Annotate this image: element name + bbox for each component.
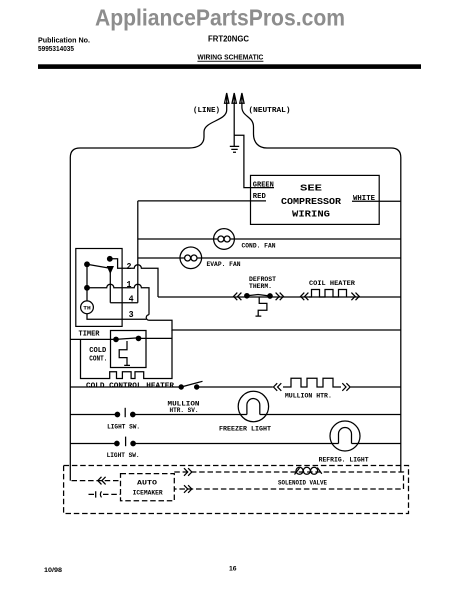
svg-text:TIMER: TIMER [79,331,101,339]
svg-text:ICEMAKER: ICEMAKER [133,489,164,497]
svg-text:LIGHT SW.: LIGHT SW. [107,452,140,460]
svg-text:SEE: SEE [300,183,322,194]
svg-text:16: 16 [229,566,237,573]
svg-text:1: 1 [127,279,132,290]
svg-text:REFRIG. LIGHT: REFRIG. LIGHT [319,457,369,465]
svg-text:COMPRESSOR: COMPRESSOR [281,196,341,207]
svg-text:4: 4 [129,293,134,304]
svg-text:FREEZER LIGHT: FREEZER LIGHT [219,426,271,434]
svg-text:WIRING: WIRING [292,209,330,220]
svg-text:WIRING SCHEMATIC: WIRING SCHEMATIC [197,53,264,62]
svg-text:LIGHT SW.: LIGHT SW. [107,423,140,431]
svg-text:MULLION HTR.: MULLION HTR. [285,392,332,400]
svg-text:Publication No.: Publication No. [38,38,90,45]
svg-text:SOLENOID VALVE: SOLENOID VALVE [278,479,327,487]
svg-text:COLD: COLD [89,347,106,355]
svg-text:10/98: 10/98 [44,567,62,574]
svg-text:FRT20NGC: FRT20NGC [208,35,249,44]
svg-text:RED: RED [253,193,266,201]
svg-text:GREEN: GREEN [253,181,274,189]
svg-text:COND. FAN: COND. FAN [242,243,276,251]
svg-text:TH: TH [83,305,91,312]
svg-text:AppliancePartsPros.com: AppliancePartsPros.com [95,5,345,31]
svg-text:3: 3 [129,309,134,320]
svg-text:5995314035: 5995314035 [38,46,74,53]
svg-text:2: 2 [127,261,132,272]
svg-text:EVAP. FAN: EVAP. FAN [207,261,241,269]
svg-text:COIL HEATER: COIL HEATER [309,280,356,288]
svg-text:THERM.: THERM. [249,283,272,291]
svg-text:(LINE): (LINE) [193,107,220,115]
svg-text:COLD CONTROL HEATER: COLD CONTROL HEATER [86,382,175,390]
svg-text:(NEUTRAL): (NEUTRAL) [249,107,291,115]
svg-text:CONT.: CONT. [89,355,107,363]
svg-text:AUTO: AUTO [137,479,157,487]
